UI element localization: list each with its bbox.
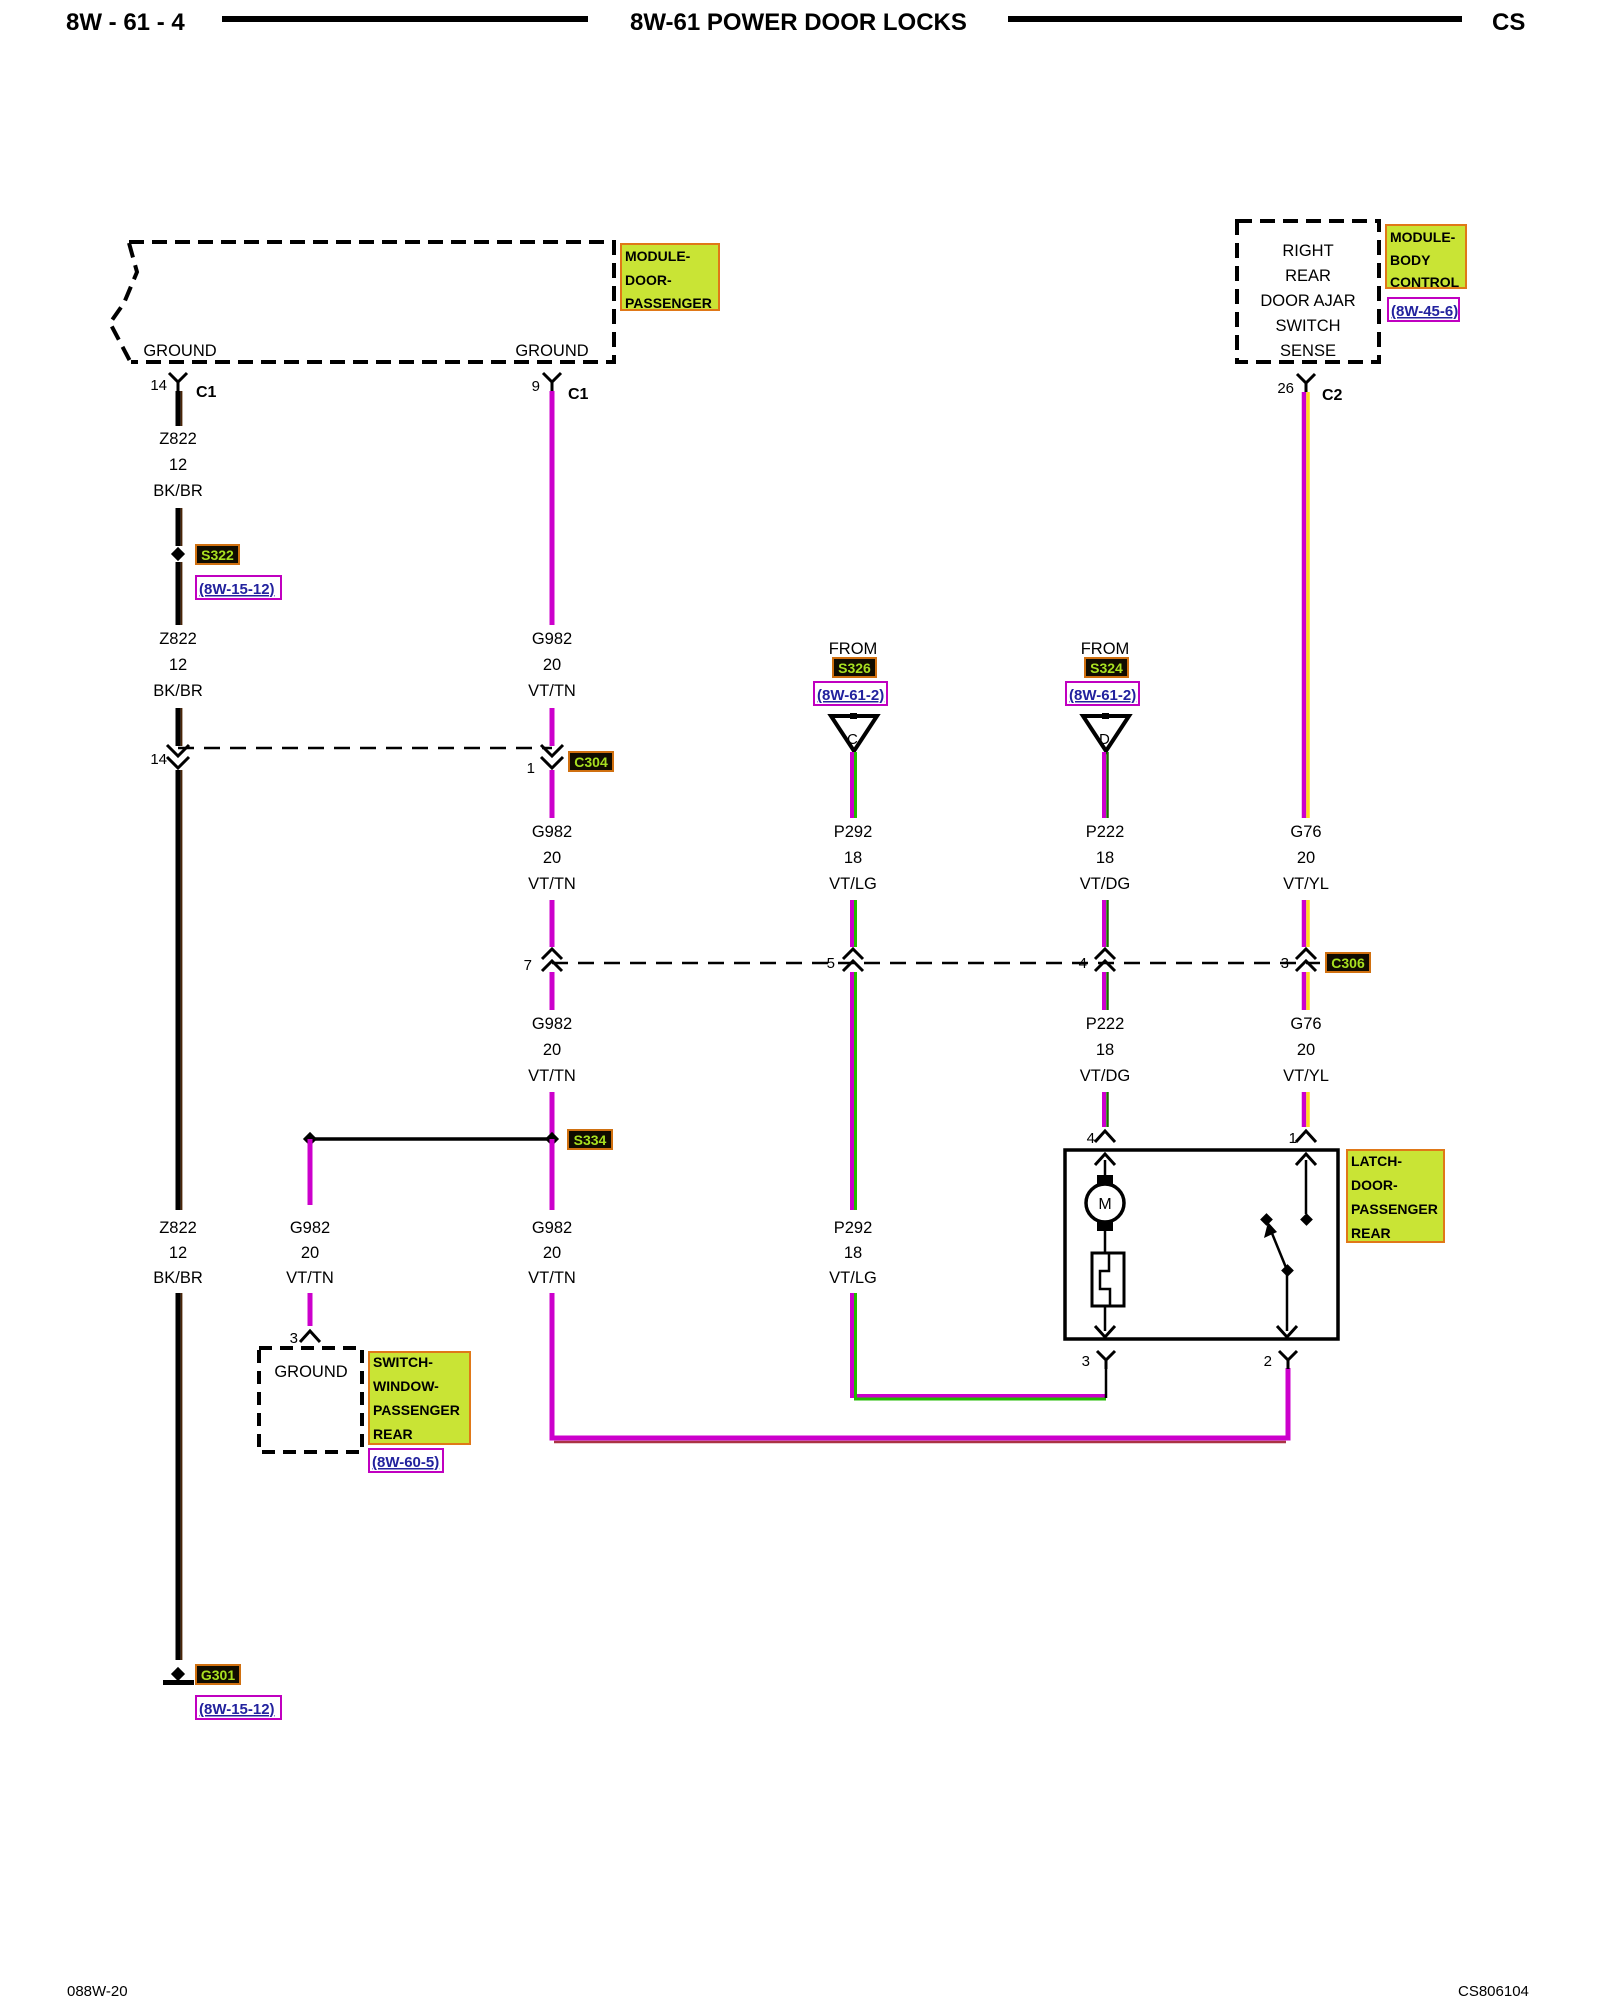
wire Z822 segment label to C304 xyxy=(176,708,181,746)
wire Z822 segment C1 to label xyxy=(176,391,181,426)
svg-text:20: 20 xyxy=(543,849,561,867)
svg-text:BK/BR: BK/BR xyxy=(153,482,203,500)
label G76 20 VT/YL (first) xyxy=(1283,823,1329,893)
latch pin 4 chevron xyxy=(1087,1130,1115,1147)
splice S326 label xyxy=(833,658,876,677)
wire P222 segment C306 to label2 xyxy=(1104,972,1108,1010)
latch callout box xyxy=(1347,1150,1444,1242)
wire P292 segment label to C306 xyxy=(852,900,856,947)
motor lead to breaker xyxy=(1104,1231,1107,1253)
svg-text:Z822: Z822 xyxy=(159,1219,197,1237)
wire G982 segment C306 to label3 xyxy=(550,972,555,1010)
wire P222 segment label to C306 xyxy=(1104,900,1108,947)
latch pin 1 chevron xyxy=(1289,1130,1316,1147)
svg-text:(8W-45-6): (8W-45-6) xyxy=(1391,303,1458,320)
svg-text:(8W-15-12): (8W-15-12) xyxy=(199,581,275,598)
wire Z822 segment label to S322 xyxy=(176,508,181,546)
switch lead to pin 2 xyxy=(1286,1270,1289,1331)
svg-text:(8W-60-5): (8W-60-5) xyxy=(372,1454,439,1471)
svg-text:20: 20 xyxy=(543,656,561,674)
svg-text:S326: S326 xyxy=(838,660,871,676)
svg-text:SWITCH-: SWITCH- xyxy=(373,1354,433,1370)
label P292 18 VT/LG (second) xyxy=(829,1219,877,1287)
latch pin 3 stub wire xyxy=(1105,1369,1108,1398)
svg-text:VT/TN: VT/TN xyxy=(528,682,576,700)
wire G982 segment C304 to label2 xyxy=(550,770,555,818)
motor M bottom cap xyxy=(1097,1222,1113,1231)
svg-text:3: 3 xyxy=(1082,1353,1090,1370)
motor M top cap xyxy=(1097,1175,1113,1184)
module-door-passenger dashed box xyxy=(110,242,614,363)
svg-text:VT/DG: VT/DG xyxy=(1080,1067,1130,1085)
svg-text:Z822: Z822 xyxy=(159,430,197,448)
switch-window ground dashed box xyxy=(259,1348,362,1452)
svg-text:PASSENGER: PASSENGER xyxy=(373,1402,460,1418)
svg-text:G982: G982 xyxy=(532,1219,572,1237)
wire G982 segment S334 down xyxy=(550,1139,555,1210)
ajar switch blade arrowhead xyxy=(1264,1222,1277,1238)
label G982 20 VT/TN (first) xyxy=(528,630,576,700)
svg-text:P292: P292 xyxy=(834,1219,873,1237)
latch motor lead top xyxy=(1104,1160,1107,1178)
svg-text:4: 4 xyxy=(1087,1130,1095,1147)
wire P222 segment triangle to label xyxy=(1104,752,1108,818)
svg-text:14: 14 xyxy=(150,377,167,394)
label G982 20 VT/TN (second) xyxy=(528,823,576,893)
svg-text:P222: P222 xyxy=(1086,823,1125,841)
svg-text:S324: S324 xyxy=(1090,660,1123,676)
switch-window pin 3 chevron xyxy=(290,1330,320,1347)
svg-text:(8W-15-12): (8W-15-12) xyxy=(199,1701,275,1718)
splice S322 junction dot xyxy=(171,547,185,561)
wire Z822 segment S322 to label xyxy=(176,562,181,625)
latch-door-passenger-rear box xyxy=(1065,1150,1338,1339)
svg-text:P292: P292 xyxy=(834,823,873,841)
svg-text:Z822: Z822 xyxy=(159,630,197,648)
label G982 20 VT/TN (branch) xyxy=(286,1219,334,1287)
svg-text:P222: P222 xyxy=(1086,1015,1125,1033)
circuit breaker element xyxy=(1100,1253,1110,1306)
svg-text:BODY: BODY xyxy=(1390,252,1431,268)
wire P292 run to latch pin 3 xyxy=(852,1293,1106,1399)
connector C304 dashed line xyxy=(178,747,552,750)
wire Z822 brown stripe xyxy=(181,391,183,426)
svg-text:VT/LG: VT/LG xyxy=(829,875,877,893)
svg-text:7: 7 xyxy=(524,957,532,974)
svg-text:S322: S322 xyxy=(201,547,234,563)
svg-text:M: M xyxy=(1098,1196,1111,1213)
connector C306 pin 7 chevrons xyxy=(524,949,562,974)
connector C306 pin 3 chevrons xyxy=(1281,949,1316,972)
latch pin 3 connector Y xyxy=(1082,1351,1115,1370)
svg-text:14: 14 xyxy=(150,751,167,768)
svg-text:GROUND: GROUND xyxy=(515,342,588,360)
connector C2 pin 26 xyxy=(1277,374,1342,404)
label P222 18 VT/DG (second) xyxy=(1080,1015,1130,1085)
wire G982 segment label3 to S334 xyxy=(550,1092,555,1139)
svg-text:VT/TN: VT/TN xyxy=(528,1067,576,1085)
svg-text:5: 5 xyxy=(827,955,835,972)
wire G982 segment C1 pin9 down xyxy=(550,391,555,625)
svg-text:C306: C306 xyxy=(1331,955,1365,971)
svg-text:PASSENGER: PASSENGER xyxy=(625,295,712,311)
svg-text:26: 26 xyxy=(1277,380,1294,397)
svg-text:18: 18 xyxy=(1096,849,1114,867)
svg-text:18: 18 xyxy=(844,1244,862,1262)
svg-text:G982: G982 xyxy=(532,823,572,841)
svg-text:BK/BR: BK/BR xyxy=(153,682,203,700)
label P292 18 VT/LG (first) xyxy=(829,823,877,893)
label P222 18 VT/DG (first) xyxy=(1080,823,1130,893)
S322 page link (8W-15-12) xyxy=(196,576,281,599)
switch-window page link (8W-60-5) xyxy=(369,1449,443,1472)
svg-text:DOOR AJAR: DOOR AJAR xyxy=(1260,292,1355,310)
svg-text:G982: G982 xyxy=(290,1219,330,1237)
svg-text:20: 20 xyxy=(1297,1041,1315,1059)
ground G301 label xyxy=(196,1665,240,1684)
svg-text:D: D xyxy=(1099,731,1110,748)
latch pin 2 connector Y xyxy=(1264,1351,1297,1370)
connector C1 pin 9 xyxy=(532,373,589,403)
splice S334 label xyxy=(568,1130,612,1149)
connector C306 pin 4 chevrons xyxy=(1079,949,1115,972)
connector C304 label xyxy=(569,752,613,771)
body control module callout box xyxy=(1386,225,1466,290)
svg-text:SWITCH: SWITCH xyxy=(1275,317,1340,335)
svg-text:C1: C1 xyxy=(568,386,589,403)
svg-text:12: 12 xyxy=(169,656,187,674)
label Z822 12 BK/BR (second) xyxy=(153,630,203,700)
svg-text:FROM: FROM xyxy=(1081,640,1130,658)
svg-text:G76: G76 xyxy=(1290,1015,1321,1033)
S326 page link (8W-61-2) xyxy=(814,682,887,705)
latch pin1 entry arrow xyxy=(1296,1154,1316,1165)
wire G76 segment C2 to label xyxy=(1304,392,1308,818)
splice S322 label xyxy=(196,545,239,564)
header left rule xyxy=(222,16,588,22)
svg-text:8W - 61 - 4: 8W - 61 - 4 xyxy=(66,9,185,36)
svg-text:(8W-61-2): (8W-61-2) xyxy=(1069,687,1136,704)
splice S334 horizontal tie xyxy=(310,1137,552,1141)
svg-text:REAR: REAR xyxy=(373,1426,413,1442)
motor M circle xyxy=(1086,1184,1124,1222)
svg-text:20: 20 xyxy=(1297,849,1315,867)
svg-text:REAR: REAR xyxy=(1351,1225,1391,1241)
wire G982 tan stripe on horizontal run xyxy=(554,1441,1286,1444)
svg-text:MODULE-: MODULE- xyxy=(625,248,691,264)
svg-text:C1: C1 xyxy=(196,384,217,401)
svg-text:DOOR-: DOOR- xyxy=(1351,1177,1398,1193)
wire G76 segment C306 to label2 xyxy=(1304,972,1308,1010)
svg-text:18: 18 xyxy=(844,849,862,867)
switch contact dot lower xyxy=(1281,1264,1294,1277)
svg-text:20: 20 xyxy=(301,1244,319,1262)
body control page link (8W-45-6) xyxy=(1388,298,1459,321)
svg-text:2: 2 xyxy=(1264,1353,1272,1370)
svg-text:REAR: REAR xyxy=(1285,267,1331,285)
label G982 20 VT/TN (third) xyxy=(528,1015,576,1085)
splice S334 dot left xyxy=(303,1132,317,1146)
latch pin2 exit arrow xyxy=(1277,1326,1297,1337)
wire G982 branch from S334 down xyxy=(308,1139,313,1205)
S324 page link (8W-61-2) xyxy=(1066,682,1139,705)
splice S324 label xyxy=(1085,658,1128,677)
svg-text:S334: S334 xyxy=(574,1132,607,1148)
svg-text:20: 20 xyxy=(543,1041,561,1059)
latch pin4 entry arrow xyxy=(1095,1154,1115,1165)
svg-text:MODULE-: MODULE- xyxy=(1390,229,1456,245)
svg-text:C304: C304 xyxy=(574,754,608,770)
svg-text:VT/DG: VT/DG xyxy=(1080,875,1130,893)
svg-text:G76: G76 xyxy=(1290,823,1321,841)
wire P222 segment label2 to latch pin 4 xyxy=(1104,1092,1108,1127)
svg-text:GROUND: GROUND xyxy=(274,1363,347,1381)
wire G982 branch segment to window switch xyxy=(308,1293,313,1326)
svg-text:LATCH-: LATCH- xyxy=(1351,1153,1402,1169)
label G982 20 VT/TN (fourth) xyxy=(528,1219,576,1287)
wire Z822 segment to ground G301 xyxy=(176,1293,181,1660)
svg-text:18: 18 xyxy=(1096,1041,1114,1059)
off-page triangle D xyxy=(1083,713,1129,751)
breaker lead to pin 3 xyxy=(1104,1306,1107,1331)
svg-text:4: 4 xyxy=(1079,955,1087,972)
wire G76 segment label2 to latch pin 1 xyxy=(1304,1092,1308,1127)
svg-text:VT/LG: VT/LG xyxy=(829,1269,877,1287)
wire G982 long run to latch pin 2 xyxy=(552,1293,1288,1438)
label Z822 12 BK/BR (upper) xyxy=(153,430,203,500)
svg-text:9: 9 xyxy=(532,378,540,395)
svg-text:G982: G982 xyxy=(532,1015,572,1033)
label Z822 12 BK/BR (lower) xyxy=(153,1219,203,1287)
svg-text:088W-20: 088W-20 xyxy=(67,1983,128,2000)
latch pin3 exit arrow xyxy=(1095,1326,1115,1337)
svg-text:12: 12 xyxy=(169,456,187,474)
svg-text:(8W-61-2): (8W-61-2) xyxy=(817,687,884,704)
svg-text:SENSE: SENSE xyxy=(1280,342,1336,360)
G301 page link (8W-15-12) xyxy=(196,1696,281,1719)
connector C304 pin 14 chevrons xyxy=(150,745,189,768)
wire P292 segment C306 to label2 xyxy=(852,972,856,1210)
latch pin1 lead xyxy=(1305,1160,1308,1214)
wire Z822 long segment C304 to lower label xyxy=(176,770,181,1210)
svg-text:1: 1 xyxy=(527,760,535,777)
svg-text:RIGHT: RIGHT xyxy=(1282,242,1333,260)
wire G76 segment label to C306 xyxy=(1304,900,1308,947)
svg-text:VT/TN: VT/TN xyxy=(286,1269,334,1287)
connector C306 pin 5 chevrons xyxy=(827,949,863,972)
splice S334 dot right xyxy=(545,1132,559,1146)
header right rule xyxy=(1008,16,1462,22)
svg-text:8W-61 POWER DOOR LOCKS: 8W-61 POWER DOOR LOCKS xyxy=(630,9,967,36)
svg-text:FROM: FROM xyxy=(829,640,878,658)
ground G301 symbol xyxy=(163,1667,194,1685)
wire P292 segment triangle to label xyxy=(852,752,856,818)
body control module dashed box xyxy=(1237,221,1379,362)
svg-text:PASSENGER: PASSENGER xyxy=(1351,1201,1438,1217)
module-door-passenger callout box xyxy=(621,244,719,311)
svg-text:DOOR-: DOOR- xyxy=(625,272,672,288)
svg-text:G301: G301 xyxy=(201,1667,235,1683)
label G76 20 VT/YL (second) xyxy=(1283,1015,1329,1085)
svg-text:WINDOW-: WINDOW- xyxy=(373,1378,439,1394)
svg-text:VT/TN: VT/TN xyxy=(528,875,576,893)
wire G982 segment label2 to C306 xyxy=(550,900,555,947)
svg-text:C: C xyxy=(847,731,858,748)
svg-text:VT/TN: VT/TN xyxy=(528,1269,576,1287)
svg-text:20: 20 xyxy=(543,1244,561,1262)
wire G982 segment label to C304 xyxy=(550,708,555,746)
svg-text:3: 3 xyxy=(1281,955,1289,972)
ajar switch pivot dot xyxy=(1260,1213,1273,1226)
connector C306 label xyxy=(1326,953,1370,972)
svg-text:3: 3 xyxy=(290,1330,298,1347)
switch-window callout box xyxy=(369,1352,470,1444)
latch pin1 contact dot xyxy=(1300,1213,1313,1226)
circuit breaker box xyxy=(1092,1253,1124,1306)
svg-text:CS806104: CS806104 xyxy=(1458,1983,1529,2000)
connector C306 dashed line xyxy=(552,962,1320,965)
body control module text xyxy=(1260,242,1355,360)
connector C304 pin 1 chevrons xyxy=(527,745,563,777)
svg-text:VT/YL: VT/YL xyxy=(1283,875,1329,893)
connector C1 pin 14 xyxy=(150,373,216,401)
svg-text:BK/BR: BK/BR xyxy=(153,1269,203,1287)
svg-text:CS: CS xyxy=(1492,9,1525,36)
off-page triangle C xyxy=(831,713,877,751)
svg-text:12: 12 xyxy=(169,1244,187,1262)
svg-text:G982: G982 xyxy=(532,630,572,648)
svg-text:VT/YL: VT/YL xyxy=(1283,1067,1329,1085)
svg-text:C2: C2 xyxy=(1322,387,1343,404)
svg-text:CONTROL: CONTROL xyxy=(1390,274,1460,290)
svg-text:GROUND: GROUND xyxy=(143,342,216,360)
ajar switch blade xyxy=(1269,1226,1287,1270)
svg-text:1: 1 xyxy=(1289,1130,1297,1147)
